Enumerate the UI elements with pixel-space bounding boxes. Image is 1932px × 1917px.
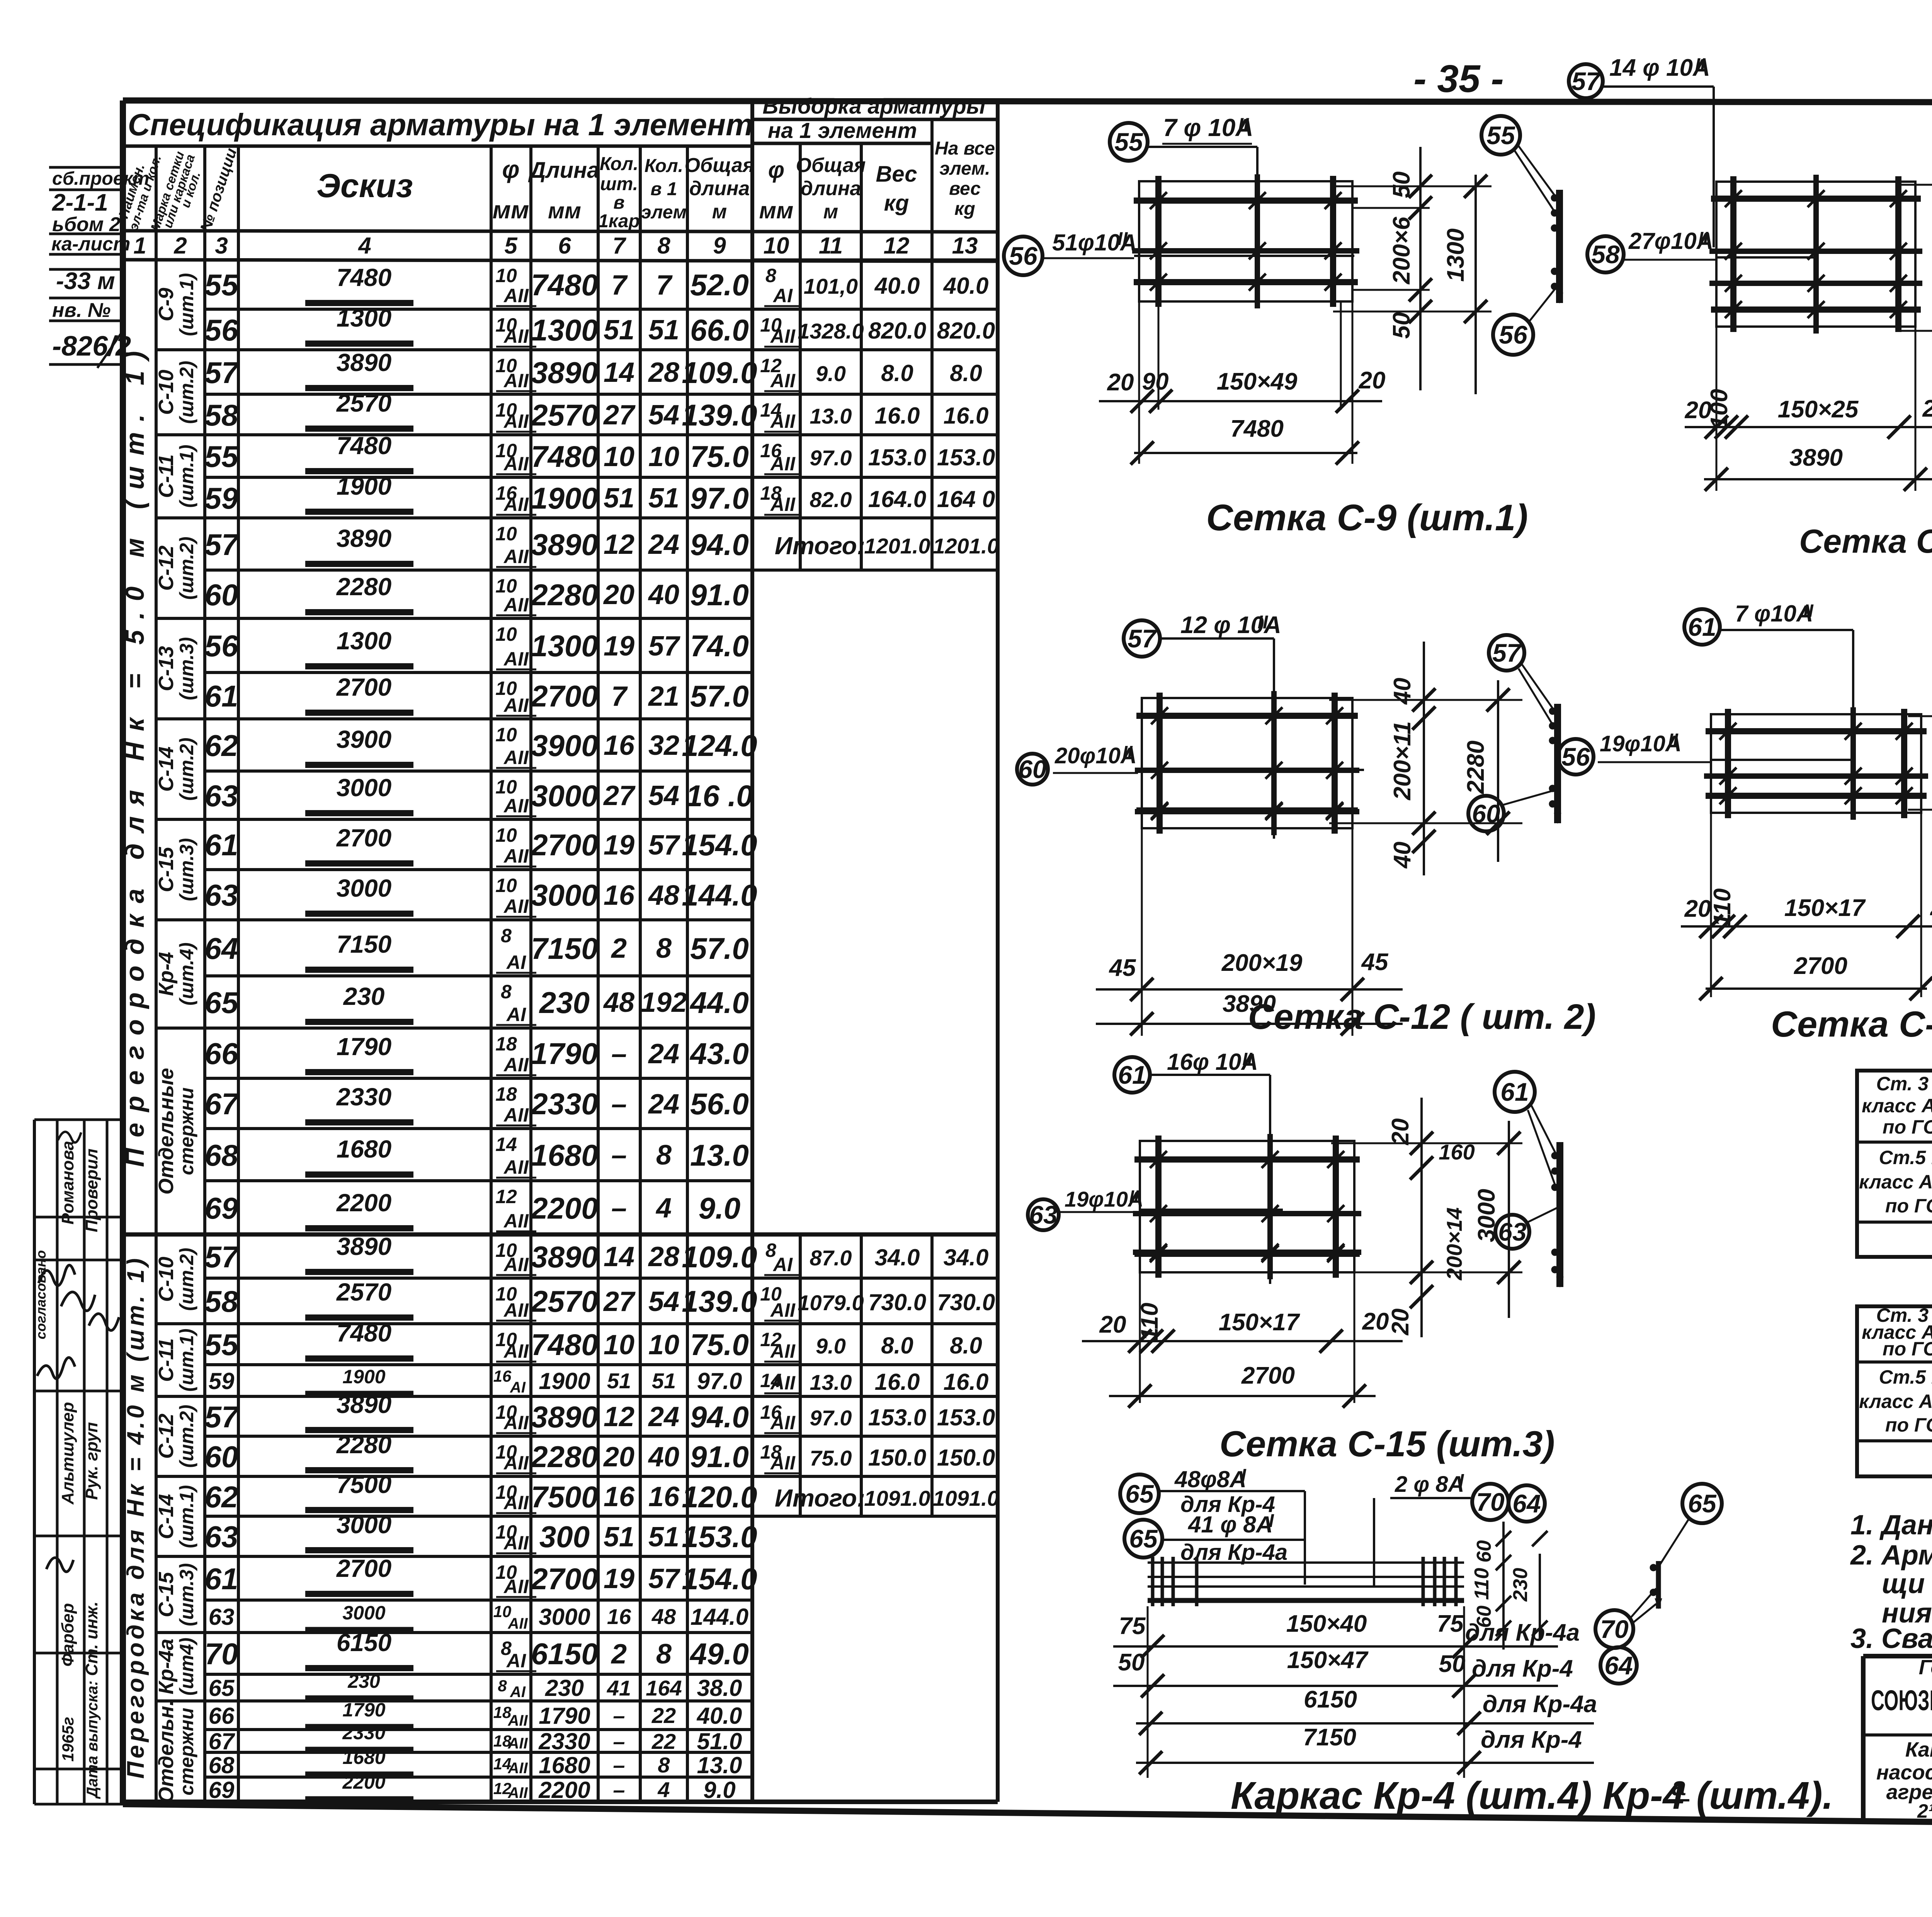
svg-text:1091.0: 1091.0: [933, 1486, 999, 1510]
svg-text:7: 7: [612, 233, 626, 259]
table row pos 55 (7480): [205, 433, 998, 436]
svg-text:820.0: 820.0: [868, 318, 926, 344]
svg-text:150×17: 150×17: [1219, 1309, 1300, 1336]
table row pos 57 (3890): [205, 348, 998, 351]
svg-text:62: 62: [205, 1480, 238, 1514]
mesh C-12 crossing ticks: [1265, 762, 1282, 779]
svg-text:82.0: 82.0: [810, 487, 852, 512]
svg-text:40: 40: [1389, 678, 1416, 705]
svg-text:100: 100: [1706, 389, 1733, 429]
svg-text:75: 75: [1437, 1611, 1464, 1637]
dim line C-9 150x49: [1099, 400, 1382, 402]
svg-text:класс АII Сортамент: класс АII Сортамент: [1859, 1171, 1932, 1193]
svg-text:2330: 2330: [336, 1083, 391, 1111]
svg-text:16.0: 16.0: [944, 403, 989, 429]
svg-text:АII: АII: [770, 1299, 796, 1321]
svg-text:45: 45: [1109, 955, 1136, 981]
svg-text:1790: 1790: [342, 1699, 385, 1721]
svg-text:Ст. 3 ГОСТ 380-60: Ст. 3 ГОСТ 380-60: [1876, 1073, 1932, 1095]
svg-text:16 .0: 16 .0: [686, 779, 753, 813]
svg-text:1790: 1790: [539, 1703, 590, 1729]
mesh C-10 horizontal bar: [1709, 281, 1922, 286]
svg-text:124.0: 124.0: [682, 729, 757, 763]
svg-text:на 1 элемент: на 1 элемент: [768, 118, 917, 143]
leader line C-10 top: [1713, 87, 1715, 247]
column line c12: [930, 119, 934, 570]
svg-text:56: 56: [1009, 242, 1038, 270]
svg-text:Ст. инж.: Ст. инж.: [82, 1602, 101, 1676]
svg-text:6150: 6150: [337, 1629, 391, 1657]
svg-text:90: 90: [1142, 368, 1169, 395]
svg-text:2280: 2280: [530, 578, 598, 612]
svg-text:3890: 3890: [531, 528, 598, 562]
svg-text:С-12: С-12: [155, 1413, 178, 1459]
svg-text:20: 20: [603, 1442, 634, 1473]
svg-text:3890: 3890: [531, 356, 598, 390]
svg-text:На все: На все: [935, 138, 995, 159]
svg-text:2200: 2200: [530, 1191, 598, 1225]
svg-text:2: 2: [611, 933, 627, 964]
svg-text:АII: АII: [503, 795, 529, 817]
svg-text:АI: АI: [772, 285, 793, 306]
svg-text:200×19: 200×19: [1221, 950, 1303, 976]
svg-text:200×6: 200×6: [1388, 216, 1415, 284]
column line c1: [155, 146, 158, 1802]
vyborka row d18: [752, 1435, 998, 1438]
svg-text:164 0: 164 0: [937, 486, 995, 512]
svg-text:7 φ10А: 7 φ10А: [1735, 601, 1813, 627]
svg-text:а: а: [1672, 1772, 1686, 1801]
svg-text:192: 192: [641, 987, 687, 1018]
svg-text:3: 3: [215, 233, 228, 259]
table row pos 61 (2700): [205, 818, 752, 821]
svg-text:57: 57: [205, 356, 240, 390]
leader line 56 V1: [1528, 287, 1556, 323]
svg-text:40.0: 40.0: [874, 273, 920, 299]
vyborka header line2: [752, 142, 932, 145]
svg-text:24: 24: [648, 1039, 679, 1069]
svg-text:51: 51: [648, 483, 679, 514]
svg-text:230: 230: [1509, 1568, 1532, 1602]
svg-text:АII: АII: [507, 1615, 528, 1632]
svg-text:3000: 3000: [531, 878, 598, 912]
kr4 dim line 7150: [1136, 1762, 1594, 1764]
circle 56 C-13 left: [1558, 739, 1594, 775]
svg-text:58: 58: [205, 1284, 238, 1318]
svg-text:101,0: 101,0: [804, 274, 858, 298]
svg-text:вес: вес: [949, 179, 981, 199]
svg-text:57.0: 57.0: [690, 679, 749, 713]
svg-text:48: 48: [648, 880, 679, 911]
svg-text:154.0: 154.0: [682, 1562, 757, 1596]
svg-text:С-13: С-13: [155, 646, 178, 691]
svg-text:27: 27: [603, 400, 636, 431]
svg-text:(шт.1): (шт.1): [176, 273, 197, 336]
svg-text:65: 65: [1688, 1489, 1717, 1518]
svg-text:66: 66: [209, 1703, 235, 1729]
svg-text:55: 55: [205, 1328, 239, 1362]
svg-text:120.0: 120.0: [682, 1480, 757, 1514]
svg-text:41: 41: [607, 1676, 631, 1700]
svg-text:АII: АII: [770, 325, 796, 347]
kr4 dim line 150x47: [1113, 1685, 1558, 1687]
table row pos 62 (7500): [205, 1475, 998, 1478]
svg-text:по ГОСТ 5781- 61: по ГОСТ 5781- 61: [1883, 1116, 1932, 1138]
table row pos 56 (1300): [205, 617, 752, 620]
svg-text:164: 164: [646, 1676, 682, 1700]
svg-text:по ГОСТ 5781-61: по ГОСТ 5781-61: [1885, 1195, 1932, 1217]
side view bar V3: [1554, 704, 1561, 823]
svg-text:56: 56: [1561, 742, 1590, 771]
svg-text:АII: АII: [503, 1104, 529, 1126]
column line c11: [860, 143, 863, 570]
svg-text:27: 27: [603, 1286, 636, 1317]
svg-text:2200: 2200: [538, 1777, 590, 1803]
svg-text:3000: 3000: [337, 1511, 391, 1539]
vyborka row d8: [752, 259, 998, 261]
svg-text:200×11: 200×11: [1389, 721, 1416, 800]
svg-text:16: 16: [493, 1367, 512, 1385]
circle 57 C-10 top: [1569, 64, 1603, 98]
svg-text:60: 60: [205, 1440, 238, 1474]
svg-text:87.0: 87.0: [810, 1246, 852, 1270]
svg-text:АI: АI: [506, 1004, 526, 1025]
svg-text:65: 65: [205, 986, 239, 1020]
svg-text:150×47: 150×47: [1287, 1647, 1369, 1674]
svg-text:8.0: 8.0: [881, 1333, 913, 1359]
svg-text:2-1-1: 2-1-1: [52, 189, 108, 216]
table row pos 60 (2280): [205, 1435, 998, 1438]
svg-text:(шт.4): (шт.4): [176, 942, 197, 1005]
mesh C-13 horizontal bar: [1704, 773, 1928, 779]
svg-text:1079.0: 1079.0: [798, 1290, 864, 1315]
svg-text:нв. №: нв. №: [52, 299, 111, 322]
svg-text:57: 57: [205, 1400, 240, 1434]
svg-text:АI: АI: [506, 1650, 526, 1672]
svg-text:АII: АII: [503, 370, 529, 392]
svg-text:51: 51: [648, 315, 679, 346]
svg-text:–: –: [613, 1729, 625, 1754]
svg-text:57: 57: [205, 1240, 240, 1274]
svg-text:54: 54: [648, 780, 679, 811]
svg-text:Госстрой СССР: Госстрой СССР: [1919, 1656, 1932, 1679]
svg-text:8: 8: [656, 1140, 672, 1171]
title block frame: [1863, 1654, 1932, 1658]
svg-text:1300: 1300: [531, 629, 598, 663]
svg-text:1. Данный чертеж см. совмес: 1. Данный чертеж см. совместно с листом …: [1850, 1510, 1932, 1541]
svg-text:55: 55: [205, 439, 239, 473]
svg-text:Ст.5 ГОСТ 380-60: Ст.5 ГОСТ 380-60: [1879, 1147, 1932, 1168]
column line c5: [529, 146, 532, 1802]
svg-text:АII: АII: [503, 845, 529, 867]
svg-text:1300: 1300: [531, 313, 598, 347]
svg-text:7150: 7150: [1303, 1724, 1356, 1751]
svg-text:С-11: С-11: [155, 1338, 178, 1382]
svg-text:Проверил: Проверил: [82, 1149, 101, 1232]
svg-text:7480: 7480: [531, 439, 598, 473]
circle 65 kr4 a: [1120, 1474, 1159, 1513]
mesh C-9 crossing ticks: [1249, 242, 1266, 259]
mesh C-15 vertical bar: [1267, 1134, 1273, 1279]
svg-text:элем.: элем.: [939, 158, 990, 179]
svg-text:3890: 3890: [337, 1233, 391, 1260]
svg-text:АII: АII: [503, 494, 529, 515]
svg-text:70: 70: [1600, 1615, 1629, 1643]
svg-text:2700: 2700: [336, 1554, 391, 1582]
table row pos 63 (3000): [205, 1515, 998, 1518]
dim ext C-15 right: [1331, 1142, 1522, 1144]
svg-text:94.0: 94.0: [690, 528, 749, 562]
svg-text:60: 60: [205, 578, 238, 612]
svg-text:8.0: 8.0: [881, 360, 913, 386]
svg-text:1300: 1300: [337, 627, 391, 655]
svg-text:9.0: 9.0: [703, 1777, 735, 1803]
svg-text:55: 55: [205, 268, 239, 302]
circle 64 V7: [1600, 1647, 1637, 1684]
leader circle 55 C-9: [1110, 123, 1148, 161]
svg-text:14: 14: [604, 1241, 634, 1272]
svg-text:10: 10: [604, 441, 634, 472]
svg-text:57: 57: [1492, 638, 1522, 667]
frame left line / table left edge: [120, 100, 126, 1804]
svg-text:Дата выпуска:: Дата выпуска:: [84, 1680, 101, 1799]
svg-text:10: 10: [495, 776, 517, 798]
svg-text:74.0: 74.0: [690, 629, 749, 663]
svg-text:3900: 3900: [531, 729, 598, 763]
mesh C-10 outline: [1716, 182, 1915, 327]
svg-text:Сетка С-13 (шт.3): Сетка С-13 (шт.3): [1771, 1004, 1932, 1044]
svg-text:мм: мм: [493, 196, 529, 224]
svg-text:АII: АII: [503, 453, 529, 475]
svg-text:8: 8: [656, 933, 672, 964]
mesh C-9 edge bars: [1134, 197, 1358, 204]
svg-text:20: 20: [1359, 367, 1386, 394]
dim ext C-13 right: [1908, 715, 1932, 717]
mesh C-15 outline: [1140, 1141, 1354, 1272]
svg-text:54: 54: [648, 400, 679, 431]
svg-text:3000: 3000: [342, 1602, 385, 1624]
svg-text:56: 56: [205, 313, 238, 347]
svg-text:40: 40: [648, 1442, 679, 1473]
svg-text:57: 57: [205, 528, 240, 562]
svg-text:51: 51: [604, 1522, 634, 1553]
svg-text:57: 57: [648, 631, 680, 662]
dim ext C-12 right: [1329, 699, 1522, 701]
table row pos 59 (1900): [205, 1363, 998, 1366]
svg-text:II: II: [1668, 730, 1679, 750]
svg-text:2700: 2700: [1794, 953, 1847, 979]
svg-text:109.0: 109.0: [682, 356, 757, 390]
svg-text:97.0: 97.0: [690, 481, 749, 515]
svg-text:II: II: [1698, 228, 1709, 248]
svg-text:20: 20: [1922, 395, 1932, 422]
svg-text:51: 51: [652, 1369, 676, 1393]
svg-text:28: 28: [648, 357, 679, 388]
svg-text:56: 56: [1499, 320, 1528, 349]
svg-text:1201.0: 1201.0: [864, 534, 930, 558]
svg-text:3890: 3890: [337, 349, 391, 376]
svg-text:1790: 1790: [531, 1037, 598, 1071]
table row pos 65 (230): [205, 974, 752, 977]
svg-text:Сетка С-10 (шт. 2): Сетка С-10 (шт. 2): [1799, 523, 1932, 560]
svg-text:3000: 3000: [337, 874, 391, 902]
svg-text:2570: 2570: [530, 398, 598, 432]
circle 63 V6: [1495, 1215, 1529, 1249]
svg-text:65: 65: [1125, 1479, 1154, 1508]
svg-text:2. Арматурные сетки и ка: 2. Арматурные сетки и каркасы изготовлят…: [1850, 1540, 1932, 1571]
svg-text:С-15: С-15: [155, 1572, 178, 1617]
svg-text:Канализационная: Канализационная: [1905, 1738, 1932, 1761]
svg-text:АI: АI: [772, 1254, 793, 1275]
svg-text:57: 57: [648, 830, 680, 861]
dim ext verticals C-12 bottom: [1141, 828, 1143, 1036]
svg-text:С-10: С-10: [155, 1256, 178, 1302]
mesh C-13 crossing ticks: [1845, 768, 1862, 785]
table row pos 70 (6150): [205, 1631, 752, 1634]
circle 60 C-12 left: [1017, 754, 1048, 785]
table row pos 69 (2200): [205, 1776, 752, 1779]
svg-text:АII: АII: [770, 494, 796, 515]
circle 65 kr4 b: [1124, 1520, 1162, 1558]
svg-text:СОЮЗВОДОКАНАЛПРОЕКТ: СОЮЗВОДОКАНАЛПРОЕКТ: [1871, 1684, 1932, 1716]
mesh C-9 horizontal bar: [1132, 248, 1359, 254]
svg-text:АII: АII: [507, 1784, 528, 1801]
svg-text:153.0: 153.0: [682, 1520, 757, 1554]
column line c10: [799, 143, 802, 570]
svg-text:75.0: 75.0: [690, 1328, 749, 1362]
svg-text:67: 67: [209, 1728, 235, 1754]
svg-text:9: 9: [713, 233, 726, 259]
svg-text:22: 22: [651, 1729, 676, 1754]
svg-text:19: 19: [604, 1563, 634, 1594]
svg-text:(шт.4).: (шт.4).: [1696, 1774, 1833, 1817]
svg-text:АII: АII: [770, 1412, 796, 1433]
svg-text:II: II: [1117, 229, 1128, 249]
svg-text:С-11: С-11: [155, 454, 178, 498]
vyborka row d16: [752, 434, 998, 436]
svg-text:по ГОСТ 5781-61: по ГОСТ 5781-61: [1885, 1414, 1932, 1436]
circle 60 V3: [1468, 796, 1504, 831]
svg-text:49.0: 49.0: [689, 1637, 749, 1671]
svg-text:50: 50: [1388, 312, 1415, 339]
svg-text:2200: 2200: [342, 1771, 385, 1793]
svg-text:8: 8: [498, 1677, 507, 1695]
dim line C-15 200x14: [1420, 1098, 1423, 1337]
spec table title bar line: [123, 145, 752, 148]
svg-text:–: –: [613, 1703, 625, 1728]
svg-text:60: 60: [1473, 1540, 1495, 1563]
dim line C-15 3000: [1508, 1121, 1510, 1318]
svg-text:1091.0: 1091.0: [864, 1486, 930, 1510]
svg-text:АII: АII: [503, 1054, 529, 1076]
svg-text:7150: 7150: [337, 930, 391, 958]
table row pos 63 (3000): [205, 868, 752, 871]
mesh C-9 vertical bar: [1255, 174, 1260, 308]
svg-text:91.0: 91.0: [690, 1440, 749, 1474]
dim line C-10 3890: [1704, 478, 1932, 480]
table row pos 55 (7480): [205, 1322, 998, 1325]
svg-text:70: 70: [1476, 1488, 1505, 1516]
vyborka row d14: [752, 1364, 998, 1366]
svg-text:16: 16: [648, 1481, 680, 1512]
svg-text:1900: 1900: [531, 481, 598, 515]
svg-text:48φ8А: 48φ8А: [1174, 1466, 1247, 1492]
vyborka row d14: [752, 393, 998, 396]
svg-text:2700: 2700: [336, 673, 391, 701]
mesh C-12 outline: [1142, 698, 1352, 828]
svg-text:48: 48: [603, 987, 634, 1018]
svg-text:144.0: 144.0: [690, 1604, 748, 1630]
mesh C-12 horizontal bar: [1135, 809, 1359, 814]
svg-text:1680: 1680: [337, 1135, 391, 1163]
svg-text:66: 66: [205, 1037, 238, 1071]
svg-text:6: 6: [558, 233, 571, 259]
leader line C-15 top: [1269, 1075, 1271, 1284]
dim line C-12 3890: [1096, 1023, 1403, 1025]
svg-text:Отдельные: Отдельные: [155, 1068, 178, 1195]
svg-text:С-15: С-15: [155, 847, 178, 892]
svg-text:шт.: шт.: [600, 174, 638, 194]
leader lines 70 V7: [1630, 1588, 1656, 1619]
svg-text:91.0: 91.0: [690, 578, 749, 612]
svg-text:для Кр-4: для Кр-4: [1481, 1726, 1582, 1753]
leader vline 2d8AI: [1373, 1498, 1375, 1587]
svg-text:63: 63: [205, 878, 238, 912]
column line c13 vyborka right edge: [996, 100, 1000, 1802]
svg-text:27: 27: [603, 780, 636, 811]
svg-text:60: 60: [1018, 755, 1047, 783]
svg-text:для Кр-4а: для Кр-4а: [1465, 1619, 1580, 1646]
karkas band lines: [1148, 1561, 1464, 1564]
vyborka row d12: [752, 1323, 998, 1325]
svg-text:φ: φ: [768, 157, 784, 183]
svg-text:Альтшулер: Альтшулер: [58, 1402, 77, 1505]
column line c8: [686, 146, 689, 1802]
svg-text:8: 8: [501, 925, 512, 947]
circle 61 C-15 top: [1114, 1057, 1150, 1093]
mesh C-15 horizontal bar: [1133, 1250, 1361, 1255]
svg-text:(шт.1): (шт.1): [176, 1328, 197, 1391]
svg-text:94.0: 94.0: [690, 1400, 749, 1434]
circle 61 C-13 top: [1684, 609, 1720, 645]
svg-text:18: 18: [495, 1083, 517, 1105]
svg-text:57: 57: [1128, 624, 1157, 653]
svg-text:20: 20: [1099, 1311, 1126, 1338]
svg-text:75.0: 75.0: [690, 439, 749, 473]
side view bar V7: [1656, 1561, 1661, 1609]
svg-text:АII: АII: [770, 370, 796, 392]
svg-text:сб.проект: сб.проект: [52, 169, 149, 189]
svg-text:8: 8: [765, 265, 776, 286]
svg-text:Итого:: Итого:: [775, 1484, 865, 1512]
svg-text:34.0: 34.0: [875, 1245, 920, 1270]
leader lines 61 V6: [1531, 1105, 1556, 1155]
svg-text:24: 24: [648, 529, 679, 560]
svg-text:стержни: стержни: [176, 1708, 197, 1796]
dim line C-13 2700: [1706, 987, 1927, 990]
svg-text:- 35 -: - 35 -: [1413, 57, 1503, 100]
svg-text:13.0: 13.0: [810, 404, 852, 428]
svg-text:8.0: 8.0: [950, 360, 982, 386]
svg-text:48: 48: [651, 1604, 676, 1629]
vyborka row d10: [752, 1277, 998, 1280]
leader line 65 V7: [1660, 1518, 1689, 1565]
svg-text:Кол.: Кол.: [600, 154, 638, 174]
svg-text:АII: АII: [503, 1532, 529, 1554]
svg-text:230: 230: [545, 1675, 584, 1701]
svg-text:АII: АII: [503, 1254, 529, 1275]
svg-text:56: 56: [205, 629, 238, 663]
